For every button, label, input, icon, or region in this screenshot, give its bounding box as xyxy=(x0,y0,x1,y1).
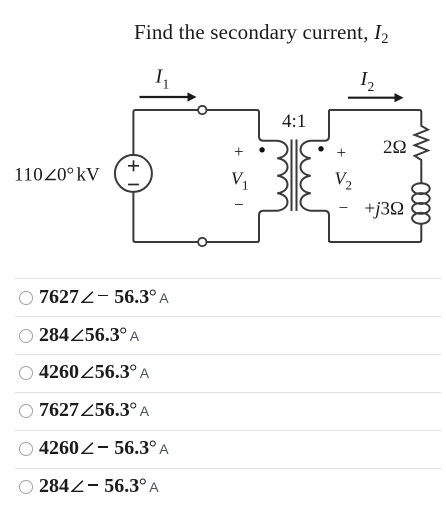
svg-text:kV: kV xyxy=(77,164,101,185)
svg-text:+j3Ω: +j3Ω xyxy=(365,199,405,220)
svg-text:1: 1 xyxy=(163,77,170,92)
svg-text:+: + xyxy=(337,143,347,162)
svg-text:1: 1 xyxy=(242,178,249,193)
svg-text:−: − xyxy=(339,198,349,217)
svg-text:0°: 0° xyxy=(57,164,74,185)
svg-text:+: + xyxy=(234,142,244,161)
svg-text:4:1: 4:1 xyxy=(282,111,306,132)
svg-text:2Ω: 2Ω xyxy=(383,137,407,158)
svg-text:110: 110 xyxy=(14,164,43,185)
svg-text:2: 2 xyxy=(346,178,353,193)
svg-text:−: − xyxy=(234,195,244,214)
svg-text:2: 2 xyxy=(368,79,375,94)
